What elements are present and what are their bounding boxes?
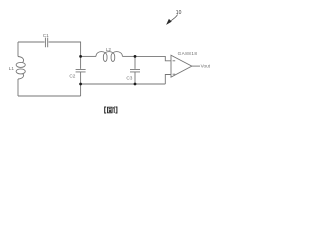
wire riser to lower node [80,84,82,96]
inductor L1 [9,57,26,80]
capacitor C2 [69,56,85,84]
svg-text:Vout: Vout [201,64,211,69]
wire left vertical top lead [17,42,19,57]
leader arrow annotation 10 [166,10,181,25]
wire op-amp output [192,65,200,67]
junction node C [79,83,82,86]
wire node B to op-amp top input [135,56,171,60]
svg-text:C2: C2 [69,74,75,79]
svg-text:L1: L1 [9,66,15,71]
svg-text:C3: C3 [126,75,132,80]
svg-text:GA8818: GA8818 [178,51,198,56]
capacitor C3 [126,56,140,84]
wire riser to op-amp bottom input [165,75,171,85]
capacitor C1 [43,33,49,47]
wire left vertical bottom lead [17,79,19,96]
svg-text:10: 10 [176,10,182,16]
inductor L2 [96,47,122,62]
junction node B [134,55,137,58]
wire mid segment node A to L2 [81,55,96,57]
wire bottom-left rail [18,95,81,97]
wire L2 to node B [122,55,135,57]
wire top rail right segment [49,42,81,56]
op-amp U1 [171,51,197,77]
caption 图1 [105,107,117,113]
wire top rail left segment [18,41,45,43]
junction node D [134,83,137,86]
svg-text:C1: C1 [43,33,49,38]
svg-text:L2: L2 [106,47,112,52]
junction node A [79,55,82,58]
wire bottom mid rail [81,83,166,85]
